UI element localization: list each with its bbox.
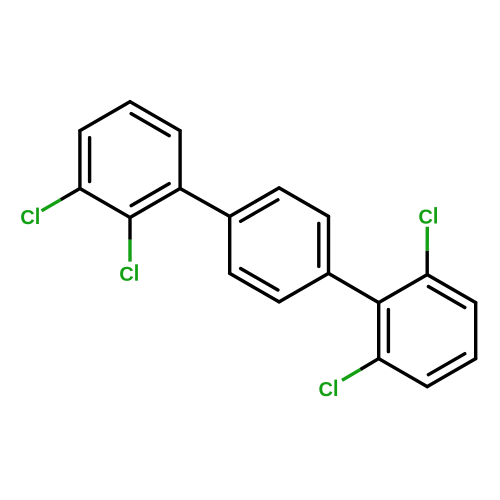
- C-Cl bond ring A C5 (chlorine half, green): [42, 200, 61, 211]
- C-Cl bond ring C C5 (chlorine half, green): [342, 370, 360, 381]
- ring C bond C2-C3: [474, 303, 477, 359]
- C-Cl bond ring C C5 (carbon half, black): [360, 359, 378, 370]
- C-Cl bond ring C C1 (carbon half, black): [426, 251, 429, 275]
- ring C double bond inner line C5-C6: [387, 310, 390, 352]
- ring B bond C1-C2: [279, 188, 328, 217]
- ring B double bond inner line C6-C1: [241, 200, 278, 222]
- ring C bond C6-C1: [379, 275, 428, 303]
- ring B bond C6-C1: [230, 188, 279, 217]
- ring A bond C5-C6: [78, 131, 81, 189]
- biphenyl single bond ring B C3 - ring C C6: [329, 273, 379, 302]
- ring C bond C4-C5: [379, 359, 428, 387]
- Cl label on ring C C5 (chlorine atom): [319, 380, 337, 397]
- ring A double bond inner line C1-C2: [131, 114, 169, 136]
- ring A bond C6-C1: [80, 102, 130, 131]
- ring A bond C1-C2: [130, 102, 180, 131]
- biphenyl single bond ring A C3 - ring B C6: [180, 189, 230, 217]
- ring C bond C1-C2: [427, 275, 476, 303]
- ring C bond C5-C6: [377, 303, 380, 359]
- C-Cl bond ring C C1 (chlorine half, green): [426, 227, 429, 251]
- ring C double bond inner line C3-C4: [428, 354, 464, 375]
- Cl label on ring A C5 (chlorine atom): [21, 208, 39, 225]
- ring A bond C4-C5: [80, 189, 130, 218]
- ring C double bond inner line C1-C2: [428, 287, 464, 308]
- ring A double bond inner line C3-C4: [131, 184, 169, 206]
- ring B double bond inner line C4-C5: [241, 269, 278, 291]
- Cl label on ring A C4 (chlorine atom): [120, 264, 138, 281]
- ring A bond C3-C4: [130, 189, 180, 218]
- ring B bond C4-C5: [230, 273, 279, 302]
- C-Cl bond ring A C5 (carbon half, black): [61, 189, 80, 200]
- ring A bond C2-C3: [178, 131, 181, 189]
- ring B double bond inner line C2-C3: [317, 223, 320, 266]
- C-Cl bond ring A C4 (chlorine half, green): [128, 240, 131, 262]
- ring C bond C3-C4: [427, 359, 476, 387]
- ring A double bond inner line C5-C6: [88, 138, 91, 182]
- ring B bond C5-C6: [228, 216, 231, 273]
- ring B bond C2-C3: [327, 216, 330, 273]
- Cl label on ring C C1 (chlorine atom): [419, 207, 437, 224]
- C-Cl bond ring A C4 (carbon half, black): [128, 218, 131, 240]
- ring B bond C3-C4: [279, 273, 328, 302]
